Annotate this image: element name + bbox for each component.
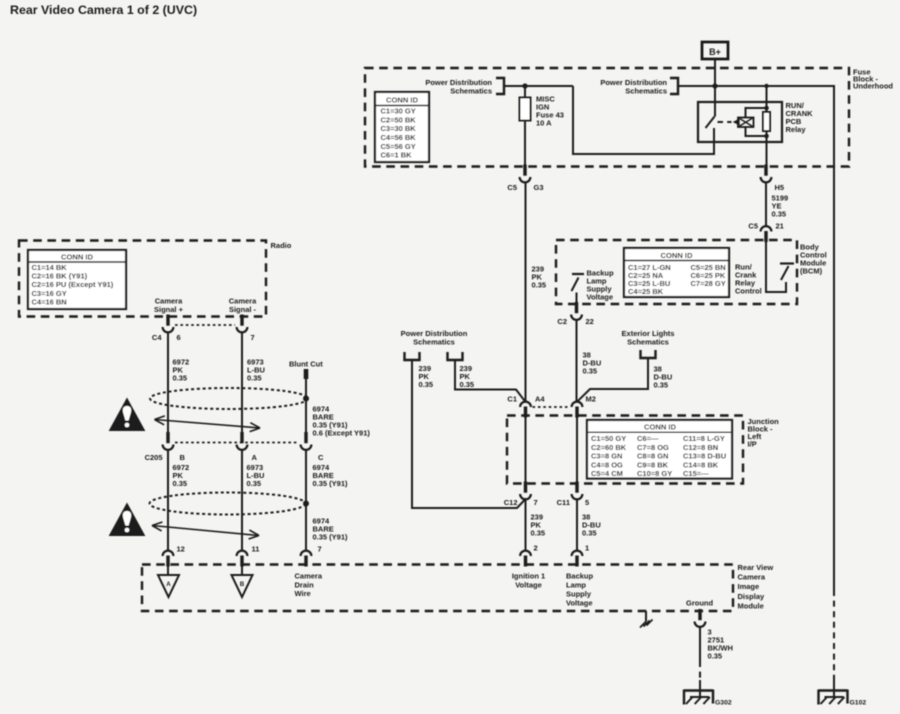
svg-text:Blunt Cut: Blunt Cut xyxy=(289,360,323,369)
svg-text:C15=---: C15=--- xyxy=(683,469,709,478)
svg-text:Supply: Supply xyxy=(566,590,592,599)
svg-text:Wire: Wire xyxy=(295,589,311,598)
svg-text:Schematics: Schematics xyxy=(450,87,492,96)
svg-text:11: 11 xyxy=(252,545,260,554)
svg-text:CONN ID: CONN ID xyxy=(61,253,94,262)
svg-text:Control: Control xyxy=(735,287,762,296)
svg-text:(BCM): (BCM) xyxy=(800,267,823,276)
svg-text:0.35: 0.35 xyxy=(419,380,434,389)
svg-text:Schematics: Schematics xyxy=(627,338,669,347)
svg-text:C3=30 BK: C3=30 BK xyxy=(381,124,417,133)
svg-text:0.35: 0.35 xyxy=(582,529,597,538)
svg-text:C11=8 L-GY: C11=8 L-GY xyxy=(683,434,725,443)
svg-text:C6=---: C6=--- xyxy=(637,434,659,443)
svg-text:0.35: 0.35 xyxy=(173,479,188,488)
svg-text:B: B xyxy=(240,581,245,588)
svg-text:Voltage: Voltage xyxy=(587,293,614,302)
svg-text:5: 5 xyxy=(585,498,589,507)
svg-text:C12=8 BN: C12=8 BN xyxy=(683,443,718,452)
svg-text:C2=60 BK: C2=60 BK xyxy=(591,443,627,452)
svg-text:CONN ID: CONN ID xyxy=(386,95,419,104)
svg-text:Display: Display xyxy=(738,592,766,601)
svg-text:C205: C205 xyxy=(145,453,163,462)
svg-text:7: 7 xyxy=(318,545,322,554)
svg-text:C5: C5 xyxy=(507,183,517,192)
svg-text:Relay: Relay xyxy=(786,125,807,134)
svg-text:0.35: 0.35 xyxy=(247,374,262,383)
svg-text:12: 12 xyxy=(177,545,185,554)
svg-text:C4: C4 xyxy=(152,333,162,342)
svg-text:A: A xyxy=(252,453,258,462)
svg-text:0.35: 0.35 xyxy=(531,529,546,538)
svg-text:Ignition 1: Ignition 1 xyxy=(512,572,545,581)
svg-text:I/P: I/P xyxy=(748,440,757,449)
svg-text:0.35: 0.35 xyxy=(708,652,723,661)
svg-text:Voltage: Voltage xyxy=(515,581,542,590)
svg-text:C14=8 BK: C14=8 BK xyxy=(683,460,719,469)
svg-text:C5: C5 xyxy=(748,222,758,231)
svg-text:0.35: 0.35 xyxy=(772,210,787,219)
svg-text:7: 7 xyxy=(534,498,538,507)
svg-text:B: B xyxy=(180,453,186,462)
svg-text:G102: G102 xyxy=(850,700,867,707)
svg-text:C1=50 GY: C1=50 GY xyxy=(591,434,626,443)
svg-text:0.35: 0.35 xyxy=(460,380,475,389)
svg-text:C2=50 BK: C2=50 BK xyxy=(381,115,417,124)
svg-text:0.6 (Except Y91): 0.6 (Except Y91) xyxy=(313,429,371,438)
svg-text:Backup: Backup xyxy=(566,572,594,581)
svg-text:C5=4 CM: C5=4 CM xyxy=(591,469,623,478)
svg-text:Rear Video Camera 1 of 2 (UVC): Rear Video Camera 1 of 2 (UVC) xyxy=(10,3,197,17)
svg-text:10 A: 10 A xyxy=(536,119,552,128)
svg-text:1: 1 xyxy=(585,544,589,553)
svg-text:C: C xyxy=(318,453,324,462)
svg-text:C10=8 GY: C10=8 GY xyxy=(637,469,672,478)
svg-text:Voltage: Voltage xyxy=(566,599,593,608)
svg-text:C3=8 GN: C3=8 GN xyxy=(591,452,622,461)
svg-text:Camera: Camera xyxy=(295,572,323,581)
svg-text:Rear View: Rear View xyxy=(738,563,774,572)
svg-text:Schematics: Schematics xyxy=(413,338,455,347)
svg-text:M2: M2 xyxy=(586,395,596,404)
svg-text:C7=28 GY: C7=28 GY xyxy=(691,279,726,288)
svg-text:Radio: Radio xyxy=(271,241,292,250)
svg-text:0.35: 0.35 xyxy=(654,381,669,390)
svg-text:Ground: Ground xyxy=(686,599,713,608)
svg-text:C9=8 BK: C9=8 BK xyxy=(637,460,669,469)
svg-text:C8=8 GN: C8=8 GN xyxy=(637,452,668,461)
svg-text:6: 6 xyxy=(177,333,181,342)
svg-text:C4=16 BN: C4=16 BN xyxy=(32,297,67,306)
svg-text:C12: C12 xyxy=(504,498,518,507)
svg-text:C11: C11 xyxy=(557,498,570,507)
svg-text:A: A xyxy=(166,581,171,588)
svg-text:C1=30 GY: C1=30 GY xyxy=(381,107,416,116)
svg-text:0.35 (Y91): 0.35 (Y91) xyxy=(313,533,349,542)
svg-text:B+: B+ xyxy=(709,47,721,57)
svg-text:21: 21 xyxy=(776,222,784,231)
svg-text:C5=56 GY: C5=56 GY xyxy=(381,142,416,151)
svg-text:C7=8 OG: C7=8 OG xyxy=(637,443,669,452)
svg-text:C4=8 OG: C4=8 OG xyxy=(591,460,623,469)
svg-text:Underhood: Underhood xyxy=(853,82,893,91)
svg-text:Schematics: Schematics xyxy=(625,87,667,96)
svg-text:0.35 (Y91): 0.35 (Y91) xyxy=(313,479,349,488)
svg-text:H5: H5 xyxy=(775,183,785,192)
svg-text:CONN ID: CONN ID xyxy=(660,251,693,260)
svg-text:0.35: 0.35 xyxy=(583,367,598,376)
svg-text:C4=25 BK: C4=25 BK xyxy=(628,287,664,296)
svg-text:C6=1 BK: C6=1 BK xyxy=(381,151,413,160)
svg-text:Image: Image xyxy=(738,582,760,591)
svg-text:CONN ID: CONN ID xyxy=(644,423,677,432)
svg-text:G302: G302 xyxy=(715,700,732,707)
svg-text:Signal +: Signal + xyxy=(154,305,184,314)
svg-text:Signal -: Signal - xyxy=(229,305,257,314)
svg-text:C4=56 BK: C4=56 BK xyxy=(381,133,417,142)
svg-text:Module: Module xyxy=(738,601,764,610)
svg-text:22: 22 xyxy=(586,317,594,326)
svg-text:7: 7 xyxy=(251,333,255,342)
svg-text:Camera: Camera xyxy=(738,573,766,582)
svg-text:0.35: 0.35 xyxy=(247,479,262,488)
svg-text:0.35: 0.35 xyxy=(532,281,547,290)
svg-text:C13=8 D-BU: C13=8 D-BU xyxy=(683,452,726,461)
svg-text:A4: A4 xyxy=(535,395,545,404)
svg-text:C2: C2 xyxy=(557,317,567,326)
svg-text:C1: C1 xyxy=(507,395,517,404)
svg-text:0.35: 0.35 xyxy=(173,374,188,383)
svg-text:G3: G3 xyxy=(534,183,544,192)
svg-text:Drain: Drain xyxy=(295,580,315,589)
svg-text:Lamp: Lamp xyxy=(566,581,586,590)
svg-text:2: 2 xyxy=(534,544,538,553)
